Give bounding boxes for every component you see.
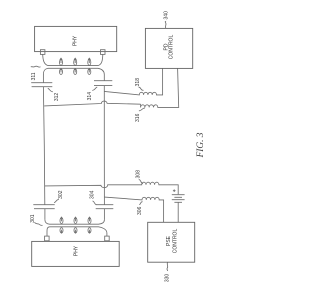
svg-text:308: 308 bbox=[135, 170, 141, 179]
svg-text:306: 306 bbox=[137, 206, 143, 215]
svg-text:FIG. 3: FIG. 3 bbox=[196, 132, 206, 158]
svg-text:316: 316 bbox=[135, 113, 141, 122]
svg-text:330: 330 bbox=[165, 274, 171, 283]
svg-text:312: 312 bbox=[54, 93, 60, 102]
svg-text:318: 318 bbox=[135, 78, 141, 87]
svg-text:301: 301 bbox=[30, 214, 36, 223]
svg-text:340: 340 bbox=[164, 11, 170, 20]
svg-text:CONTROL: CONTROL bbox=[172, 229, 178, 254]
svg-text:PSE: PSE bbox=[166, 235, 172, 246]
svg-text:314: 314 bbox=[87, 92, 93, 101]
svg-text:PHY: PHY bbox=[73, 245, 79, 256]
svg-text:304: 304 bbox=[90, 190, 96, 199]
svg-text:PHY: PHY bbox=[72, 35, 78, 46]
svg-text:CONTROL: CONTROL bbox=[169, 35, 175, 60]
svg-text:311: 311 bbox=[31, 72, 37, 80]
svg-text:302: 302 bbox=[58, 190, 64, 199]
